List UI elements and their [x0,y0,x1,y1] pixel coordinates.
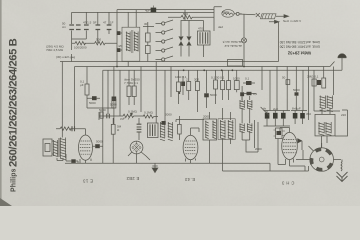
svg-text:E 2B2: E 2B2 [126,176,139,181]
resistor R10 [187,82,191,91]
mains transformer T3 box [315,114,335,135]
wires T3 to rectifier [314,108,348,148]
lamp LP1 [242,38,247,43]
potentiometer P1 [123,114,143,117]
capacitor C21 bottom [71,159,75,163]
resistor R11 [195,82,199,91]
IF transformer T1 winding b [134,32,138,52]
capacitor C6 electrolytic on bus [151,8,157,13]
svg-text:300: 300 [194,78,199,82]
svg-text:da-Wdst 4x1,5: da-Wdst 4x1,5 [222,40,242,44]
wire mains drop [278,22,280,62]
capacitor C14 blob [295,92,299,95]
capacitor C11 blob [240,92,244,96]
wire top bus [72,11,214,13]
selector box [228,60,243,67]
capacitor C5a blob [117,31,121,35]
wire left drop [71,43,73,61]
wires bottom right [223,139,309,172]
svg-text:1000: 1000 [233,77,240,81]
rotated service text block [218,19,320,56]
capacitor C4 [107,25,112,30]
resistor R12 [214,80,218,89]
wire left trunk x74.6 [74,67,76,129]
resistor R8 [132,86,136,97]
IF transformer T1 box [122,27,140,61]
wire CH3 top feed [280,128,290,132]
wire R3 R4 [143,22,154,62]
wires L5 L6 [210,108,231,163]
svg-text:Wdst 29+32: Wdst 29+32 [287,51,311,56]
right verticals upper [262,67,334,121]
svg-text:E.43: E.43 [185,177,195,182]
resistor R21 horizontal [143,115,158,118]
svg-text:2000: 2000 [165,113,172,117]
resistor R20 small [100,112,103,118]
svg-text:47/1.5: 47/1.5 [83,21,92,25]
IF transformer T4 lower pair [240,123,253,132]
wire L1 leads [189,21,204,58]
resistor R3 [146,33,151,42]
resistor R15 wide [234,81,239,90]
wire caps row [98,12,109,43]
svg-text:30: 30 [144,22,148,26]
capacitor C24 [137,129,142,132]
T2 core [59,138,60,157]
capacitor C3 [96,25,101,30]
resistor R9 box [177,82,181,92]
svg-text:2000: 2000 [255,147,262,151]
capacitor C13 [247,92,252,95]
svg-text:0,1MΩ: 0,1MΩ [144,111,154,115]
resistor R1 zigzag [72,42,86,45]
svg-text:Welle: Welle [222,10,230,14]
diagonal wire [261,107,270,116]
wire top bus second [117,9,214,11]
capacitor C25 blob [162,121,166,125]
vertical trunks left-mid [103,67,120,164]
svg-text:470: 470 [198,27,203,31]
tiny annotation texts [46,9,346,152]
capacitor C22 [107,114,110,119]
svg-text:E 13: E 13 [83,179,93,184]
resistor R13 [221,81,225,90]
capacitor C10 [204,93,209,97]
svg-text:da2: da2 [218,25,223,29]
node J1 [236,12,239,15]
capacitor C12 [246,81,252,85]
driver box D1 [274,128,286,139]
svg-text:220: 220 [341,113,346,117]
resistor R18 [322,78,326,88]
wire over V3 [176,120,204,133]
chassis symbol top right [338,54,347,71]
fuse F1 [261,14,277,19]
capacitor C20 right of V1 [95,144,100,148]
resistor R7 [127,86,131,97]
capacitor bank C17 [293,113,298,119]
svg-text:7MΩ 4,5 MΩ: 7MΩ 4,5 MΩ [46,48,64,52]
oscillator coil L2 [222,10,234,18]
svg-text:μF: μF [80,83,84,87]
contact arrows K2 [187,30,191,57]
capacitor C8 [112,97,117,102]
svg-text:8+8μF: 8+8μF [292,107,301,111]
capacitor C5b blob [117,48,121,52]
bottom bus [65,162,223,164]
svg-text:0,1: 0,1 [245,77,250,81]
svg-text:5000: 5000 [210,93,217,97]
resistor R2 zigzag [84,42,117,45]
svg-text:1F: 1F [110,21,114,25]
arrow A1 [276,15,289,18]
wire V1 stem [79,129,86,135]
IF coils left of V3 [168,122,173,141]
capacitor C23 [137,124,142,127]
capacitor C9 blob [181,82,185,87]
T1 core [132,30,133,53]
resistor R14 [227,81,231,90]
wire left trunk x62 [61,62,63,138]
resistor R22 vertical [111,124,115,134]
svg-text:1MΩ 0,1: 1MΩ 0,1 [175,75,187,79]
tube V2 circle [128,141,150,163]
svg-text:0,1MΩ: 0,1MΩ [128,110,138,114]
arrow A2 [269,20,279,23]
capacitor C19 [72,126,75,131]
resistor R16 [286,80,290,85]
svg-text:2μF: 2μF [273,107,278,111]
svg-text:4/F: 4/F [118,44,123,48]
svg-text:2MΩ 0,1: 2MΩ 0,1 [307,75,319,79]
node dots on bus [116,66,245,72]
svg-text:0,1 50 0,1: 0,1 50 0,1 [211,76,225,80]
wire x156 to bottom [155,122,157,124]
mains transformer T3 primary [320,96,333,112]
resistor R4 [146,46,151,54]
speaker SP1 [43,139,52,156]
IF transformer T1 winding a [126,32,130,52]
wire arrows feed [181,10,189,30]
svg-text:5000: 5000 [99,108,106,112]
svg-text:5000: 5000 [110,103,117,107]
mid verticals [141,62,171,124]
capacitor C15 blob [317,80,321,85]
svg-text:2000: 2000 [203,115,210,119]
svg-text:Netz m 220 V: Netz m 220 V [283,19,301,23]
resistor R24 upper [112,99,116,108]
coil L1 box [198,31,211,45]
svg-text:5000: 5000 [293,88,300,92]
speaker coil bar [53,140,58,157]
svg-text:cm: cm [62,25,67,29]
wire speaker top [52,137,63,161]
coil pair L4 [160,122,165,141]
switch S2 cross [256,13,260,17]
capacitor C1 [69,25,80,30]
resistor R6 [85,84,89,95]
rectifier tube V5 [303,143,341,171]
ground arrow bottom right [337,160,348,182]
svg-text:Umst. auf 220V: Blö-Wd 150: Umst. auf 220V: Blö-Wd 150 [279,40,320,44]
tube V4 detector CH3 [282,128,302,167]
wire right top vertical [214,7,222,31]
svg-text:260/261/262/263/264/265 B: 260/261/262/263/264/265 B [8,38,20,167]
tube V3 [183,128,198,163]
tube V1 output [79,135,93,163]
tube labels rotated 180 [83,176,295,186]
ground G1 on bus [152,163,158,172]
svg-text:(30) u.Erh.geg: (30) u.Erh.geg [56,55,76,59]
svg-text:4μF: 4μF [145,9,150,13]
svg-text:μμF: μμF [120,117,125,121]
wire right mid steps [246,120,258,152]
resistor R5 horizontal 500 [168,15,214,19]
svg-text:C H 3: C H 3 [281,181,294,186]
coil box L5 [203,119,217,140]
svg-text:5000: 5000 [96,140,103,144]
resistor R19 zigzag output [56,127,79,130]
svg-text:350: 350 [306,112,311,116]
capacitor C2 [84,25,89,30]
mains transformer T3 secondary [318,122,331,135]
wire osc row [234,14,255,15]
resistor R17 box [312,79,316,86]
svg-text:500: 500 [183,12,188,16]
svg-text:7,7MΩ 0,1: 7,7MΩ 0,1 [124,81,138,85]
wires T4 [242,96,250,147]
wire T1 leads [128,10,136,67]
capacitor C18 blob left of CH3 [277,131,282,135]
wire mid-left row y116 [87,108,123,120]
svg-text:5F: 5F [93,21,97,25]
left page edge shadow [0,0,2,206]
svg-text:50: 50 [282,76,286,80]
svg-text:100/2000: 100/2000 [74,46,87,50]
wire lamp column [243,14,245,66]
loop box top-left [72,12,87,43]
svg-text:47: 47 [103,21,107,25]
svg-text:Philips: Philips [11,168,18,192]
svg-text:500: 500 [96,38,101,42]
bottom-left corner shadow [0,198,12,206]
IF transformer T4 upper pair [240,100,253,109]
capacitor C7 [92,96,97,100]
wire vertical x117 [116,10,118,67]
capacitor bank C16 [265,113,270,119]
coil pair L6 [218,119,235,140]
main bus y62 [60,61,279,63]
main bus y66.5 [75,62,335,67]
svg-text:4x: 4x [263,107,267,111]
contact arrows K1 [179,30,183,57]
wire over C16 [264,111,291,127]
svg-text:Umst. auf 240V: Blö-Wd 150: Umst. auf 240V: Blö-Wd 150 [279,45,320,49]
resistor R23 left of V3 [178,124,182,134]
svg-text:5000: 5000 [89,101,96,105]
output transformer T2 winding [60,138,66,160]
main bus y70.3 [103,69,342,71]
coil box L3 [148,123,159,138]
switch S1 contact column [156,20,174,61]
svg-text:0,2: 0,2 [253,92,258,96]
wire over C17 [291,111,307,125]
